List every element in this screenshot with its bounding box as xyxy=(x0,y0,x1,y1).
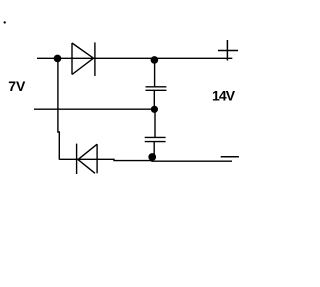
wire: branch segment node to C1 xyxy=(154,60,156,87)
wire: left vertical with jog xyxy=(58,58,59,159)
wire: branch segment C1 to middle node xyxy=(153,90,155,109)
wire: bottom rail (stepped) xyxy=(59,159,232,161)
diode D1 (top, anode left cathode right) xyxy=(72,42,95,76)
stray ink dot top-left xyxy=(3,21,5,23)
+ output terminal xyxy=(218,40,238,61)
capacitor C1 xyxy=(146,87,167,91)
- output terminal xyxy=(221,156,239,158)
wire: branch segment middle node to C2 xyxy=(154,109,156,137)
wire: branch segment C2 to bottom node xyxy=(153,142,155,157)
svg-text:14V: 14V xyxy=(212,88,236,104)
junction: top-right node xyxy=(151,56,159,64)
svg-text:7V: 7V xyxy=(8,78,26,94)
wire: top 7V input rail xyxy=(37,57,232,59)
junction: bottom node xyxy=(148,153,156,161)
capacitor C2 xyxy=(145,137,166,141)
junction: middle node xyxy=(151,106,158,113)
junction: top-left node xyxy=(54,55,62,63)
diode D2 (bottom, cathode left anode right) xyxy=(77,144,98,174)
wire: middle 7V input rail xyxy=(34,108,154,110)
